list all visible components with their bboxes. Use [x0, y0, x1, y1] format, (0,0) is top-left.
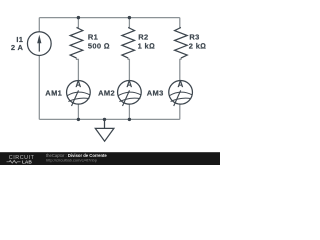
svg-text:A: A: [178, 80, 184, 89]
svg-text:AM2: AM2: [98, 89, 115, 98]
svg-text:2 kΩ: 2 kΩ: [189, 41, 207, 50]
svg-text:AM1: AM1: [45, 89, 62, 98]
svg-text:LAB: LAB: [22, 160, 32, 165]
svg-text:http://circuitlab.com/c/4t7nbp: http://circuitlab.com/c/4t7nbp: [46, 157, 98, 162]
svg-text:1 kΩ: 1 kΩ: [138, 41, 156, 50]
svg-text:500 Ω: 500 Ω: [88, 41, 110, 50]
svg-text:A: A: [126, 80, 132, 89]
svg-text:A: A: [75, 80, 81, 89]
svg-text:R1: R1: [88, 33, 98, 42]
svg-text:AM3: AM3: [147, 89, 164, 98]
svg-text:R2: R2: [138, 33, 148, 42]
svg-text:R3: R3: [189, 33, 199, 42]
svg-text:2 A: 2 A: [11, 43, 24, 52]
